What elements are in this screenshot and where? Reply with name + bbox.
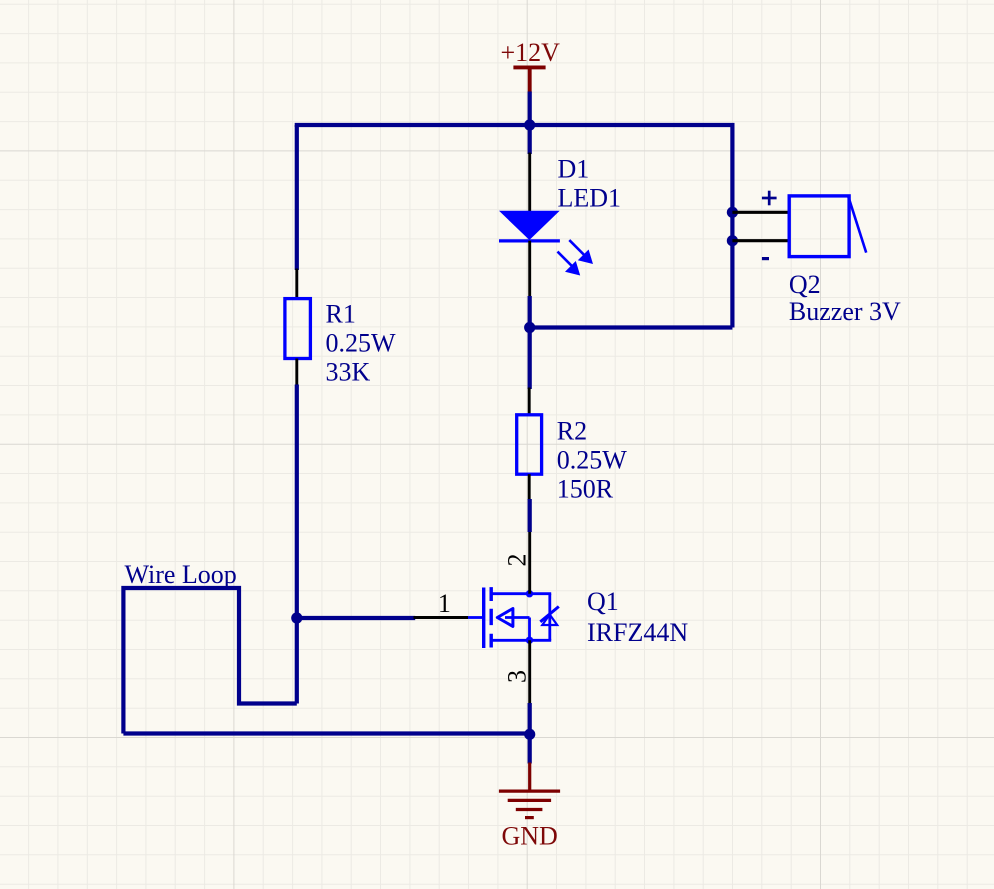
Q1 pin 3 (source) (528, 640, 531, 704)
svg-text:R1: R1 (326, 299, 356, 328)
junction: gate node (291, 612, 302, 623)
wire: R1 bottom to gate node and down to loop (295, 385, 299, 704)
svg-text:D1: D1 (558, 155, 590, 184)
Q2 pin + (732, 211, 789, 214)
junction: buzzer minus node (727, 235, 738, 246)
wire: +12V node to D1 anode (528, 125, 532, 154)
resistor R1 body (285, 299, 311, 359)
ground symbol GND (499, 763, 560, 818)
resistor R2 body (517, 415, 542, 474)
wire: right branch vertical (730, 125, 734, 328)
wire: left branch to R1 (295, 125, 299, 270)
diode D1 (LED) symbol (499, 211, 560, 241)
Q1 pin 2 (drain) (528, 531, 531, 594)
svg-text:+12V: +12V (501, 38, 561, 67)
R1 pin 2 (bottom) (295, 359, 298, 387)
svg-text:2: 2 (503, 554, 532, 567)
junction: buzzer plus node (727, 207, 738, 218)
svg-text:150R: 150R (557, 475, 614, 504)
svg-text:R2: R2 (557, 417, 587, 446)
transistor Q1 (IRFZ44N) symbol (468, 587, 559, 648)
wire: cathode pin to LED node (528, 296, 532, 329)
power port +12V symbol (513, 67, 545, 92)
svg-text:LED1: LED1 (558, 184, 622, 213)
wire: top rail (297, 125, 733, 127)
Q2 pin - (732, 239, 789, 242)
wire loop (123, 588, 296, 734)
svg-text:GND: GND (502, 821, 558, 850)
svg-text:Q1: Q1 (587, 587, 619, 616)
wire: gate node to Q1 gate pin (297, 616, 415, 620)
svg-text:0.25W: 0.25W (326, 328, 397, 357)
svg-text:Buzzer 3V: Buzzer 3V (789, 297, 901, 326)
junction: LED cathode node (524, 322, 535, 333)
svg-text:33K: 33K (326, 357, 371, 386)
svg-text:3: 3 (503, 670, 532, 683)
buzzer Q2 symbol (789, 196, 866, 257)
label pin - (762, 257, 769, 260)
D1 light arrows (558, 240, 594, 275)
wire: cathode rail to buzzer branch (530, 325, 733, 329)
R2 pin 2 (bottom) (528, 474, 531, 500)
svg-text:0.25W: 0.25W (557, 446, 628, 475)
R1 pin 1 (top) (295, 269, 298, 299)
junction: ground node (524, 729, 535, 740)
svg-text:1: 1 (438, 589, 451, 618)
svg-text:IRFZ44N: IRFZ44N (587, 618, 688, 647)
svg-text:Wire Loop: Wire Loop (125, 560, 237, 589)
Q1 pin 1 (gate) (414, 616, 469, 619)
wire: bottom rail (123, 731, 529, 735)
wire: LED node down to R2 (528, 328, 532, 390)
label pin + (762, 191, 777, 206)
wire: ground node down (528, 734, 532, 763)
D1 cathode pin (528, 241, 531, 297)
wire: R2 to Q1 drain (528, 499, 532, 532)
wire: +12V stub (528, 92, 532, 128)
D1 anode pin (528, 153, 531, 212)
R2 pin 1 (top) (528, 388, 531, 415)
svg-text:Q2: Q2 (789, 270, 821, 299)
wire: source pin to ground node (528, 703, 532, 736)
junction: +12V node (524, 119, 535, 130)
